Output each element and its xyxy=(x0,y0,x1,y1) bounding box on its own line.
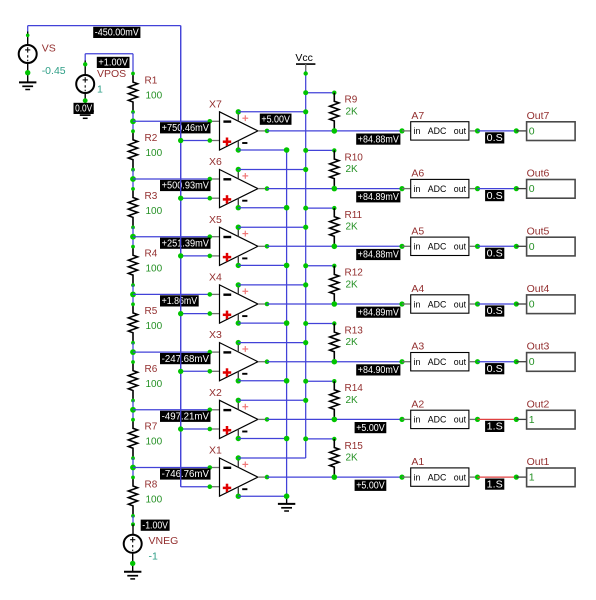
svg-text:-0.45: -0.45 xyxy=(42,65,66,77)
pin stub X2 inverting input xyxy=(210,409,220,411)
svg-text:R8: R8 xyxy=(145,479,158,490)
wire A6 digital output to Out6 xyxy=(478,188,517,190)
wire X2 output to ADC A2 xyxy=(267,418,402,420)
svg-text:+84.89mV: +84.89mV xyxy=(358,192,399,203)
pin stub A1 input xyxy=(402,476,411,478)
wire Vcc rail to R15 top xyxy=(306,438,335,440)
resistor R1 100 xyxy=(128,74,162,113)
svg-text:A7: A7 xyxy=(411,110,424,122)
net voltage label -1.00V xyxy=(141,520,170,532)
pin stub Out4 input xyxy=(516,303,526,305)
terminal dot R4 top xyxy=(131,245,135,249)
wire Vcc rail to R13 top xyxy=(306,323,335,325)
pin dot X5 output xyxy=(265,244,270,249)
pin dot X1 output xyxy=(265,475,270,480)
terminal dot R7 top xyxy=(131,418,135,422)
ADC block A1 xyxy=(411,456,469,486)
pin dot X7 output xyxy=(265,129,270,134)
pin dot X4 non-inverting input xyxy=(208,311,213,316)
junction dot VS line overlay xyxy=(178,253,183,258)
pin dot X6 output xyxy=(265,186,270,191)
terminal dot R10 top xyxy=(332,148,336,152)
svg-text:+5.00V: +5.00V xyxy=(261,114,290,125)
pin dot X6 non-inverting input xyxy=(208,196,213,201)
node dot VS positive terminal xyxy=(26,34,30,38)
wire Vcc rail to R14 top xyxy=(306,380,335,382)
wire VS line to X4 non-inverting input xyxy=(181,313,210,315)
svg-text:in: in xyxy=(414,299,421,309)
junction dot ladder tap node 7 xyxy=(130,465,136,471)
svg-text:R6: R6 xyxy=(145,364,158,375)
svg-text:ADC: ADC xyxy=(428,415,447,425)
svg-text:R13: R13 xyxy=(345,325,364,336)
pin dot A7 input xyxy=(399,128,404,133)
svg-text:R15: R15 xyxy=(345,441,364,452)
pin dot X3 V+ xyxy=(236,340,241,345)
svg-text:Out5: Out5 xyxy=(527,225,550,237)
pin stub A6 output xyxy=(469,188,478,190)
pin stub X4 non-inverting input xyxy=(210,313,220,315)
junction dot ladder tap node 1 xyxy=(130,118,136,124)
svg-text:R1: R1 xyxy=(145,75,158,86)
terminal dot R11 top xyxy=(332,206,336,210)
pin dot A4 output xyxy=(475,301,480,306)
pin stub X3 output xyxy=(258,361,267,363)
pin stub Out3 input xyxy=(516,361,526,363)
pin dot A5 output xyxy=(475,244,480,249)
terminal dot R4 bottom xyxy=(131,283,135,287)
svg-text:R3: R3 xyxy=(145,191,158,202)
resistor R6 100 xyxy=(128,362,162,401)
pin stub A3 input xyxy=(402,361,411,363)
wire V-minus rail vertical xyxy=(286,150,288,504)
svg-text:R5: R5 xyxy=(145,306,158,317)
pin dot Out5 input xyxy=(514,244,519,249)
svg-text:ADC: ADC xyxy=(428,299,447,309)
net voltage label +1.86mV xyxy=(160,295,199,307)
svg-text:100: 100 xyxy=(146,379,163,390)
svg-text:2K: 2K xyxy=(346,106,359,117)
svg-text:R9: R9 xyxy=(345,95,358,106)
svg-text:0: 0 xyxy=(529,299,535,311)
pin V- X3 xyxy=(238,372,247,381)
pin dot A4 input xyxy=(399,301,404,306)
pin dot X2 non-inverting input xyxy=(208,427,213,432)
net voltage label 0.0V xyxy=(74,103,94,115)
wire tap to X4 inverting input xyxy=(133,293,210,295)
junction dot VS line row X3 xyxy=(178,369,183,374)
pin stub X7 non-inverting input xyxy=(210,140,220,142)
resistor R2 100 xyxy=(128,131,162,170)
svg-text:0.S: 0.S xyxy=(487,133,503,144)
svg-text:Out4: Out4 xyxy=(527,283,550,295)
wire X5 V+ to Vcc rail xyxy=(238,226,305,228)
wire tap to X5 inverting input xyxy=(133,236,210,238)
resistor R12 2K xyxy=(330,266,364,304)
pin dot X7 V+ xyxy=(236,109,241,114)
terminal dot R2 top xyxy=(131,129,135,133)
wire X1 V- to rail xyxy=(238,495,286,497)
pin dot X7 inverting input xyxy=(208,119,213,124)
svg-text:in: in xyxy=(414,415,421,425)
svg-text:+84.89mV: +84.89mV xyxy=(358,307,399,318)
junction dot V- rail row X5 xyxy=(284,263,290,269)
terminal dot R3 top xyxy=(131,187,135,191)
logic state label 0.S at Out6 xyxy=(485,190,504,202)
pin stub A2 input xyxy=(402,418,411,420)
net voltage label -247.68mV xyxy=(160,353,211,365)
pin stub X6 output xyxy=(258,188,267,190)
wire A5 digital output to Out5 xyxy=(478,245,517,247)
wire Vcc rail to R11 top xyxy=(306,207,335,209)
wire VPOS to ladder top xyxy=(85,53,133,55)
pin V- X7 xyxy=(238,141,247,150)
voltage source VS xyxy=(19,45,37,63)
wire X6 V+ to Vcc rail xyxy=(238,169,305,171)
resistor R4 100 xyxy=(128,247,162,286)
pin stub A4 input xyxy=(402,303,411,305)
pin dot A5 input xyxy=(399,244,404,249)
svg-text:out: out xyxy=(454,472,467,482)
output box Out6 xyxy=(527,168,576,199)
wire X6 output to ADC A6 xyxy=(267,188,402,190)
pin stub X3 non-inverting input xyxy=(210,370,220,372)
wire Vcc rail to R12 top xyxy=(306,265,335,267)
pin dot A7 output xyxy=(475,128,480,133)
svg-text:100: 100 xyxy=(146,437,163,448)
ADC block A5 xyxy=(411,225,469,255)
wire A1 digital output to Out1 xyxy=(478,476,517,478)
svg-text:ADC: ADC xyxy=(428,126,447,136)
wire X6 V- to rail xyxy=(238,207,286,209)
svg-text:in: in xyxy=(414,472,421,482)
svg-text:100: 100 xyxy=(146,321,163,332)
pin stub X2 non-inverting input xyxy=(210,428,220,430)
junction dot VS line row X4 xyxy=(178,311,183,316)
wire VS line to X3 non-inverting input xyxy=(181,370,210,372)
svg-text:2K: 2K xyxy=(346,453,359,464)
svg-text:A6: A6 xyxy=(411,168,424,180)
logic state label 0.S at Out7 xyxy=(485,132,504,144)
svg-text:+251.39mV: +251.39mV xyxy=(162,238,210,249)
junction dot Vcc rail at R12 xyxy=(303,263,308,268)
junction dot VS line overlay xyxy=(178,426,183,431)
junction dot ladder tap node 6 xyxy=(130,407,136,413)
svg-text:A3: A3 xyxy=(411,341,424,353)
svg-text:R2: R2 xyxy=(145,133,158,144)
wire A4 digital output to Out4 xyxy=(478,303,517,305)
svg-text:R7: R7 xyxy=(145,422,158,433)
output box Out4 xyxy=(527,283,576,314)
junction dot Vcc rail at R15 xyxy=(303,436,308,441)
svg-text:1.S: 1.S xyxy=(487,422,503,433)
pin dot X2 output xyxy=(265,417,270,422)
svg-text:0: 0 xyxy=(529,183,535,195)
svg-text:Out7: Out7 xyxy=(527,110,550,122)
wire VPOS top lead xyxy=(84,61,86,76)
resistor R3 100 xyxy=(128,189,162,228)
pin stub X1 non-inverting input xyxy=(210,486,220,488)
svg-text:0.0V: 0.0V xyxy=(75,104,92,115)
svg-text:2K: 2K xyxy=(346,279,359,290)
svg-text:R12: R12 xyxy=(345,268,364,279)
svg-text:0.S: 0.S xyxy=(487,249,503,260)
svg-text:A5: A5 xyxy=(411,225,424,237)
pin dot X6 V+ xyxy=(236,167,241,172)
svg-text:0.S: 0.S xyxy=(487,191,503,202)
pin stub X4 inverting input xyxy=(210,293,220,295)
svg-text:X7: X7 xyxy=(209,98,222,110)
net voltage label +1.00V xyxy=(97,57,130,69)
pin dot X5 V- xyxy=(236,263,241,268)
wire X3 output to ADC A3 xyxy=(267,361,402,363)
pin V- X2 xyxy=(238,429,247,438)
pin stub X5 non-inverting input xyxy=(210,255,220,257)
pin dot Out7 input xyxy=(514,128,519,133)
svg-text:2K: 2K xyxy=(346,222,359,233)
pin dot X3 V- xyxy=(236,378,241,383)
svg-text:X2: X2 xyxy=(209,387,222,399)
pin V- X6 xyxy=(238,198,247,207)
svg-text:in: in xyxy=(414,357,421,367)
svg-text:out: out xyxy=(454,415,467,425)
junction dot V- rail row X6 xyxy=(284,205,290,211)
pin stub X7 inverting input xyxy=(210,120,220,122)
svg-text:out: out xyxy=(454,126,467,136)
net voltage label +500.93mV xyxy=(160,180,211,192)
svg-text:A4: A4 xyxy=(411,283,424,295)
junction dot Vcc rail row X3 xyxy=(303,340,308,345)
svg-text:0: 0 xyxy=(529,125,535,137)
op-amp X5 xyxy=(209,214,258,266)
pin dot A2 output xyxy=(475,417,480,422)
resistor R9 2K xyxy=(330,93,358,131)
svg-text:R11: R11 xyxy=(345,210,363,221)
pin V+ X6 xyxy=(238,170,248,179)
ADC block A3 xyxy=(411,341,469,371)
pin stub A7 input xyxy=(402,130,411,132)
logic state label 0.S at Out3 xyxy=(485,363,504,375)
svg-text:100: 100 xyxy=(146,264,163,275)
svg-text:out: out xyxy=(454,184,467,194)
svg-text:X4: X4 xyxy=(209,272,222,284)
wire A2 digital output to Out2 xyxy=(478,418,517,420)
pin dot X1 inverting input xyxy=(208,465,213,470)
pin stub Out7 input xyxy=(516,130,526,132)
svg-text:out: out xyxy=(454,242,467,252)
terminal dot R8 bottom xyxy=(131,514,135,518)
output box Out5 xyxy=(527,225,576,256)
svg-text:VS: VS xyxy=(42,43,56,55)
pin dot A1 output xyxy=(475,475,480,480)
pin stub A4 output xyxy=(469,303,478,305)
junction dot ladder tap node 2 xyxy=(130,176,136,182)
net voltage label +84.88mV at A5 xyxy=(356,249,400,261)
pin dot A1 input xyxy=(399,475,404,480)
ADC block A7 xyxy=(411,110,469,140)
resistor R7 100 xyxy=(128,420,162,459)
terminal dot R7 bottom xyxy=(131,456,135,460)
terminal dot R1 top xyxy=(131,72,135,76)
terminal dot R5 bottom xyxy=(131,341,135,345)
pin V- X5 xyxy=(238,256,247,265)
svg-text:+5.00V: +5.00V xyxy=(356,423,385,434)
svg-text:+5.00V: +5.00V xyxy=(356,481,385,492)
wire X5 output to ADC A5 xyxy=(267,245,402,247)
svg-text:0.S: 0.S xyxy=(487,364,503,375)
wire X4 V+ to Vcc rail xyxy=(238,284,305,286)
pin stub Out1 input xyxy=(516,476,526,478)
svg-text:0: 0 xyxy=(529,356,535,368)
pin V- X1 xyxy=(238,487,247,496)
pin stub X5 output xyxy=(258,245,267,247)
wire tap to X3 inverting input xyxy=(133,351,210,353)
pin stub Out6 input xyxy=(516,188,526,190)
junction dot VPOS ground node xyxy=(83,98,88,103)
svg-text:ADC: ADC xyxy=(428,242,447,252)
svg-text:VPOS: VPOS xyxy=(97,68,126,80)
resistor R14 2K xyxy=(330,381,364,419)
junction dot R10 bottom on output net xyxy=(332,186,338,192)
wire X3 V+ to Vcc rail xyxy=(238,342,305,344)
pin dot Out4 input xyxy=(514,301,519,306)
pin stub Out2 input xyxy=(516,418,526,420)
resistor R11 2K xyxy=(330,208,363,246)
junction dot VS line row X2 xyxy=(178,426,183,431)
output box Out1 xyxy=(527,456,576,487)
svg-text:100: 100 xyxy=(146,206,163,217)
svg-text:0.S: 0.S xyxy=(487,306,503,317)
pin stub A2 output xyxy=(469,418,478,420)
junction dot ladder tap node 5 xyxy=(130,349,136,355)
svg-text:Out1: Out1 xyxy=(527,456,550,468)
logic state label 0.S at Out5 xyxy=(485,248,504,260)
pin dot X2 V+ xyxy=(236,398,241,403)
pin dot X3 non-inverting input xyxy=(208,369,213,374)
junction dot Vcc rail at R11 xyxy=(303,206,308,211)
svg-text:in: in xyxy=(414,242,421,252)
junction dot VS line row X5 xyxy=(178,253,183,258)
op-amp X1 xyxy=(209,445,258,497)
junction dot Vcc rail row X7 xyxy=(303,109,308,114)
junction dot ladder tap node 3 xyxy=(130,234,136,240)
pin dot A3 output xyxy=(475,359,480,364)
pin V+ X5 xyxy=(238,227,248,236)
wire ladder tap segment 1 xyxy=(132,112,134,131)
wire A7 digital output to Out7 xyxy=(478,130,517,132)
terminal dot R5 top xyxy=(131,302,135,306)
junction dot R15 bottom on output net xyxy=(332,474,338,480)
junction dot Vcc rail at R13 xyxy=(303,321,308,326)
terminal dot R15 top xyxy=(332,437,336,441)
pin dot X1 non-inverting input xyxy=(208,484,213,489)
pin dot Out3 input xyxy=(514,359,519,364)
junction dot V- rail row X2 xyxy=(284,436,290,442)
wire VS line to X7 non-inverting input xyxy=(181,140,210,142)
wire R8 to VNEG net xyxy=(132,516,134,525)
svg-text:ADC: ADC xyxy=(428,184,447,194)
junction dot VS line overlay xyxy=(178,138,183,143)
pin stub Out5 input xyxy=(516,245,526,247)
junction dot VS line overlay xyxy=(178,369,183,374)
svg-text:+1.00V: +1.00V xyxy=(98,58,128,69)
terminal dot R12 top xyxy=(332,264,336,268)
svg-text:A2: A2 xyxy=(411,398,424,410)
terminal dot R13 top xyxy=(332,321,336,325)
pin stub A1 output xyxy=(469,476,478,478)
junction dot Vcc rail row X6 xyxy=(303,167,308,172)
terminal dot R9 top xyxy=(332,91,336,95)
pin dot X4 inverting input xyxy=(208,292,213,297)
svg-text:2K: 2K xyxy=(346,164,359,175)
pin dot X5 inverting input xyxy=(208,234,213,239)
svg-text:1: 1 xyxy=(97,84,103,96)
junction dot VS line row X6 xyxy=(178,196,183,201)
op-amp X6 xyxy=(209,156,258,208)
svg-text:-497.21mV: -497.21mV xyxy=(162,412,210,423)
wire X7 V+ to Vcc rail xyxy=(238,111,305,113)
junction dot Vcc rail at R10 xyxy=(303,148,308,153)
logic state label 0.S at Out4 xyxy=(485,305,504,317)
pin dot X3 inverting input xyxy=(208,350,213,355)
terminal dot R2 bottom xyxy=(131,168,135,172)
net voltage label +251.39mV xyxy=(160,238,211,250)
svg-text:in: in xyxy=(414,184,421,194)
wire VNEG bottom lead xyxy=(132,553,134,572)
op-amp X3 xyxy=(209,329,258,381)
wire ladder tap segment 4 xyxy=(132,285,134,304)
resistor R15 2K xyxy=(330,439,364,477)
wire Vcc rail to R9 top xyxy=(306,92,335,94)
junction dot VS line overlay xyxy=(178,311,183,316)
svg-text:100: 100 xyxy=(146,494,163,505)
svg-text:Vcc: Vcc xyxy=(295,52,313,64)
svg-text:X6: X6 xyxy=(209,156,222,168)
wire X2 V+ to Vcc rail xyxy=(238,399,305,401)
svg-text:2K: 2K xyxy=(346,395,359,406)
junction dot VS line row X7 xyxy=(178,138,183,143)
net voltage label +84.89mV at A6 xyxy=(356,191,400,203)
output box Out7 xyxy=(527,110,576,141)
svg-text:+84.90mV: +84.90mV xyxy=(358,365,399,376)
node dot VNEG positive terminal xyxy=(131,522,135,526)
svg-text:X5: X5 xyxy=(209,214,222,226)
wire VS line to X1 non-inverting input xyxy=(181,486,210,488)
junction dot Vcc rail at R14 xyxy=(303,379,308,384)
pin dot X1 V- xyxy=(236,494,241,499)
wire tap to X6 inverting input xyxy=(133,178,210,180)
wire X7 V- to rail xyxy=(238,149,286,151)
svg-text:Out2: Out2 xyxy=(527,398,550,410)
wire ground stub xyxy=(286,496,288,503)
pin stub A3 output xyxy=(469,361,478,363)
wire VS line to X2 non-inverting input xyxy=(181,428,210,430)
svg-text:0: 0 xyxy=(529,241,535,253)
svg-text:-746.76mV: -746.76mV xyxy=(162,469,210,480)
pin dot X7 V- xyxy=(236,147,241,152)
svg-text:-1: -1 xyxy=(149,551,158,563)
ground below V-minus rail xyxy=(278,504,295,511)
resistor R8 100 xyxy=(128,477,162,516)
pin stub X1 output xyxy=(258,476,267,478)
junction dot Vcc rail row X5 xyxy=(303,225,308,230)
svg-text:+84.88mV: +84.88mV xyxy=(358,250,399,261)
junction dot VS ground node xyxy=(25,70,30,75)
svg-text:1.S: 1.S xyxy=(487,479,503,490)
svg-text:100: 100 xyxy=(146,90,163,101)
wire VS vertical feed line xyxy=(180,26,182,487)
pin dot X2 V- xyxy=(236,436,241,441)
